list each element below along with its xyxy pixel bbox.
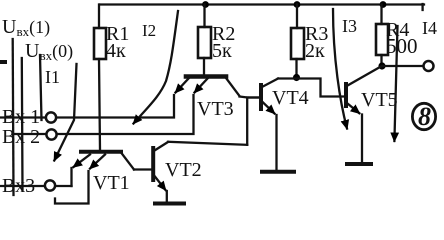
node: rail junction to R2 bbox=[202, 1, 209, 8]
resistor R1 bbox=[94, 28, 106, 59]
wire: Bx2 to VT3 emitter 2 bbox=[57, 95, 194, 134]
svg-text:I2: I2 bbox=[142, 21, 156, 40]
transistor VT2 collector bbox=[155, 142, 169, 151]
transistor VT1 emitter 2 bbox=[90, 155, 105, 169]
wire: R1 top lead bbox=[98, 5, 100, 29]
terminal: output bbox=[424, 61, 434, 71]
svg-text:Вх 1: Вх 1 bbox=[2, 106, 40, 128]
svg-text:I1: I1 bbox=[45, 67, 60, 87]
transistor VT2 emitter bbox=[155, 176, 166, 190]
wire: VT1 emitter 2 return (riser and bottom run) bbox=[55, 171, 89, 204]
svg-text:Вх 2: Вх 2 bbox=[2, 126, 40, 148]
transistor VT2 base lead (from VT1 collector) bbox=[134, 168, 152, 170]
transistor VT3 emitter 2 bbox=[195, 78, 209, 93]
transistor VT3 emitter 1 bbox=[176, 78, 190, 93]
wire: Bx1 input wire left bbox=[1, 116, 46, 118]
svg-text:8: 8 bbox=[418, 102, 431, 131]
wire: R4 bottom lead bbox=[380, 55, 382, 64]
transistor VT4 base bar bbox=[259, 85, 263, 109]
ground (VT4) bbox=[262, 170, 294, 174]
node: R3 junction on collector wire bbox=[293, 74, 300, 81]
wire: R1 bottom lead down to VT1 base bar bbox=[99, 59, 100, 150]
wire: Bx1 to VT3 emitter 1 bbox=[57, 95, 175, 118]
current arrow I4 bbox=[394, 26, 397, 141]
wire: Bx3 to VT1 emitter riser bbox=[56, 185, 72, 187]
svg-text:VT3: VT3 bbox=[197, 98, 234, 120]
wire: Bx2 input wire left bbox=[14, 133, 46, 135]
transistor VT2 base bar bbox=[151, 148, 155, 180]
svg-text:VT1: VT1 bbox=[93, 172, 130, 194]
wire: input level line at Bx1 bbox=[40, 55, 42, 120]
wire: R3 bottom lead bbox=[295, 59, 297, 76]
wire: VT2 emitter to ground bbox=[166, 191, 168, 202]
wire: R2 bottom lead to VT3 bar bbox=[203, 58, 205, 75]
resistor R2 bbox=[198, 27, 211, 58]
node: rail junction to R4 bbox=[380, 1, 387, 8]
wire: R3 node horizontal bbox=[278, 79, 345, 97]
wire: VT2 collector horizontal bbox=[168, 142, 247, 145]
terminal: Bx1 input bbox=[46, 112, 56, 122]
wire: vertical from node to VT2 collector wire bbox=[246, 98, 248, 145]
svg-text:Uвх(1): Uвх(1) bbox=[2, 16, 50, 39]
wire: VT5 emitter to ground bbox=[361, 115, 363, 162]
svg-text:Вх3: Вх3 bbox=[2, 175, 35, 197]
current arrow I1 bbox=[54, 64, 76, 161]
transistor VT3 collector bbox=[226, 78, 240, 96]
wire: output lead bbox=[382, 65, 423, 67]
transistor VT4 collector bbox=[262, 79, 278, 88]
wire: +V top rail bbox=[100, 4, 424, 10]
current arrow I3 bbox=[333, 9, 347, 129]
svg-text:5к: 5к bbox=[212, 40, 232, 62]
transistor VT5 collector bbox=[348, 66, 383, 86]
transistor VT5 base bar bbox=[344, 84, 348, 106]
svg-text:2к: 2к bbox=[305, 40, 325, 62]
terminal: Bx2 input bbox=[46, 129, 56, 139]
svg-text:Uвх(0): Uвх(0) bbox=[25, 40, 73, 63]
wire: Bx3 input wire left bbox=[1, 185, 45, 187]
svg-text:I4: I4 bbox=[422, 18, 437, 38]
terminal: Bx3 input bbox=[45, 180, 55, 190]
ground (VT2) bbox=[155, 202, 184, 206]
wire: R4 top lead bbox=[380, 5, 382, 25]
wire: VT3 collector to VT4 base bbox=[240, 97, 260, 98]
svg-text:VT2: VT2 bbox=[165, 159, 202, 181]
transistor VT4 emitter bbox=[263, 102, 275, 114]
wire: R2 top lead bbox=[203, 5, 205, 28]
transistor VT1 collector bbox=[121, 153, 134, 170]
transistor VT1 base bar (multi-emitter) bbox=[81, 150, 121, 154]
ground (VT5) bbox=[347, 162, 371, 166]
current arrow I2 bbox=[134, 11, 179, 124]
transistor VT5 emitter bbox=[348, 104, 360, 114]
transistor VT4 base lead bbox=[249, 96, 260, 98]
wire: VT1 emitter 1 riser to Bx3 wire bbox=[70, 168, 72, 186]
svg-text:4к: 4к bbox=[106, 40, 126, 62]
svg-text:500: 500 bbox=[386, 34, 418, 58]
wire: VT4 emitter to ground bbox=[275, 115, 277, 170]
svg-text:VT5: VT5 bbox=[361, 89, 398, 111]
scan artifact mark at left edge bbox=[0, 60, 5, 64]
wire: R3 top lead bbox=[296, 5, 298, 29]
transistor VT1 emitter 1 bbox=[74, 155, 91, 168]
transistor VT3 base bar (multi-emitter) bbox=[186, 74, 226, 79]
wire: Uvx(1) potential line bbox=[12, 39, 15, 195]
logic element number circle bbox=[412, 103, 435, 129]
svg-text:I3: I3 bbox=[342, 16, 357, 36]
resistor R3 bbox=[291, 28, 304, 59]
resistor R4 bbox=[376, 24, 388, 55]
node: R4/output junction bbox=[378, 62, 385, 69]
node: rail junction to R3 bbox=[294, 1, 301, 8]
wire: Uvx(0) potential line bbox=[21, 58, 24, 190]
svg-text:VT4: VT4 bbox=[272, 87, 309, 109]
